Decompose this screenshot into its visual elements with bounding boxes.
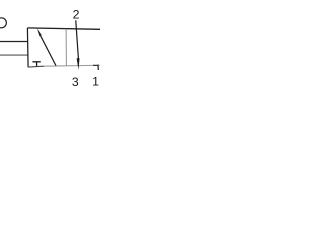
valve body left edge (26, 28, 29, 67)
port 1 stub (97, 65, 99, 70)
actuator rod bottom line (0, 54, 28, 56)
port 2 line and flow path in right square (2 to 3) (76, 20, 79, 60)
exhaust arrowhead pointing down (77, 58, 80, 70)
bottom edge dark segment near port 1 (93, 64, 98, 66)
valve position divider (65, 29, 67, 66)
svg-text:1: 1 (92, 75, 99, 89)
blocked port T in left square (port 3) (32, 61, 40, 63)
flow path arrow in left square (1 to 2) (41, 36, 56, 66)
svg-text:3: 3 (72, 75, 79, 89)
actuator rod top line (0, 41, 28, 43)
roller actuator circle (0, 18, 6, 28)
valve body bottom edge (28, 65, 44, 68)
svg-text:2: 2 (73, 8, 80, 22)
valve body top edge (27, 28, 100, 29)
